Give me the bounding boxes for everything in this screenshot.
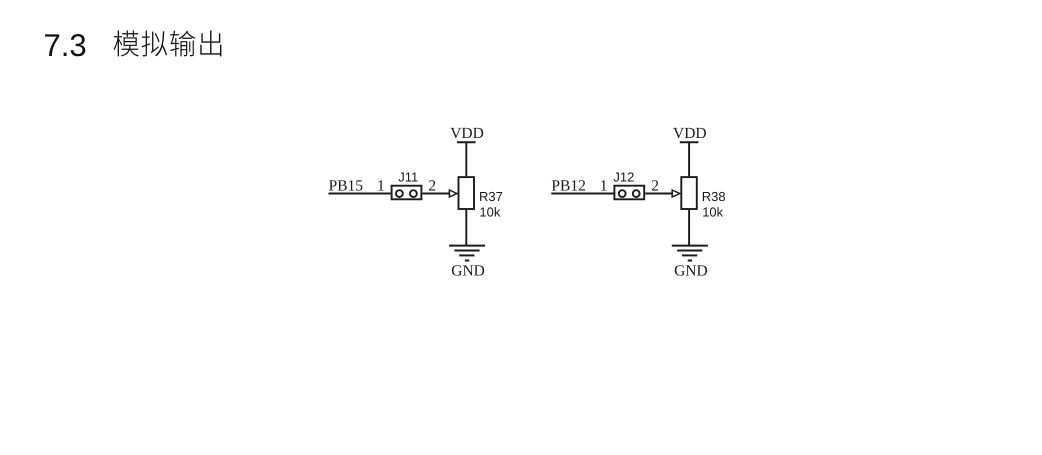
VDD power symbol bar	[457, 141, 476, 143]
heading character 出	[200, 31, 221, 57]
resistor R38 body	[681, 177, 697, 209]
VDD power symbol bar	[680, 141, 699, 143]
wire VDD bar to R37 top	[465, 142, 467, 176]
input arrow into R38	[672, 190, 680, 197]
ground symbol	[449, 246, 485, 261]
jumper J11 body	[392, 186, 422, 200]
svg-text:GND: GND	[674, 263, 708, 280]
wire R37 bottom to ground	[465, 210, 467, 246]
svg-text:1: 1	[377, 177, 385, 194]
input arrow into R37	[449, 190, 457, 197]
wire PB12 to J12 pin 1	[551, 193, 613, 195]
svg-text:PB12: PB12	[551, 177, 585, 194]
svg-text:1: 1	[600, 177, 608, 194]
wire J11 pin 2 to R37	[423, 193, 451, 195]
wire VDD bar to R38 top	[688, 142, 690, 176]
heading character 模	[114, 31, 139, 57]
svg-text:J12: J12	[613, 170, 634, 185]
heading character 拟	[142, 31, 168, 57]
wire J12 pin 2 to R38	[645, 193, 673, 195]
svg-text:J11: J11	[398, 170, 418, 185]
J12 pin 2 circle	[633, 190, 640, 197]
wire R38 bottom to ground	[688, 210, 690, 246]
jumper J12 body	[614, 186, 644, 200]
svg-text:2: 2	[428, 177, 436, 194]
resistor R37 body	[459, 177, 475, 209]
svg-text:2: 2	[651, 177, 659, 194]
svg-text:R38: R38	[702, 189, 726, 204]
J11 pin 1 circle	[396, 190, 403, 197]
svg-text:VDD: VDD	[673, 125, 707, 142]
J12 pin 1 circle	[619, 190, 626, 197]
J11 pin 2 circle	[410, 190, 417, 197]
svg-text:VDD: VDD	[450, 125, 484, 142]
svg-text:GND: GND	[451, 263, 485, 280]
heading character 输	[170, 31, 195, 57]
wire PB15 to J11 pin 1	[329, 193, 391, 195]
svg-text:7.3: 7.3	[44, 27, 87, 63]
svg-text:PB15: PB15	[329, 177, 364, 194]
svg-text:10k: 10k	[702, 205, 723, 220]
svg-text:10k: 10k	[479, 205, 500, 220]
ground symbol	[672, 246, 708, 261]
svg-text:R37: R37	[479, 189, 503, 204]
